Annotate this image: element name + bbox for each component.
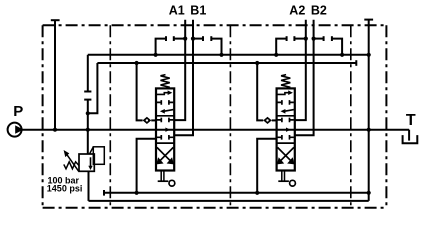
lever knob circle: [290, 180, 296, 186]
S2 bypass arrow on P line: [165, 128, 170, 132]
node: jog junction: [86, 111, 90, 115]
valve V2 body: [277, 88, 295, 170]
section divider line 3: [350, 25, 352, 207]
wire: B2 work line: [295, 20, 314, 135]
lever stem: [282, 171, 285, 182]
spring (top): [281, 75, 290, 89]
check valve diamond: [263, 117, 272, 124]
wire: bottom tank line 1 (plugged left end): [104, 192, 369, 194]
section split lines: [277, 116, 295, 143]
wire: tank gallery (upper): [88, 54, 369, 56]
plug cap: [51, 19, 60, 21]
plugged cavity: B-side: [193, 38, 203, 40]
S1 blocked bypass stubs: [157, 100, 173, 105]
S3 crossed arrows: [278, 147, 294, 161]
plug cap top: [364, 19, 373, 21]
relief valve adjustment arrow: [66, 154, 78, 171]
node dots on plug row: [304, 37, 308, 41]
wire: T return from valve: [257, 139, 276, 193]
check valve feed drop: [137, 63, 143, 120]
wire: T line corner into tank: [408, 130, 410, 141]
plugged cavity: tank-side right: [210, 36, 212, 41]
node: T line junction: [367, 128, 371, 132]
node: bottom line junction: [135, 191, 139, 195]
node dots on plug row: [183, 37, 187, 41]
wire: pressure gallery: [97, 62, 356, 64]
node: P line junction at x=55: [53, 128, 57, 132]
relief valve pilot envelope: [93, 147, 104, 165]
wire: bottom tank line 2 (from relief output): [89, 200, 369, 202]
node: junction at (87.8,129.7): [86, 128, 90, 132]
wire: check to valve: [272, 119, 277, 121]
check valve feed drop: [257, 63, 263, 120]
check valve diamond: [143, 117, 152, 124]
lever bar: [158, 180, 169, 182]
node: gallery feed junction: [135, 61, 139, 65]
plug bar: [103, 190, 105, 196]
lever stem: [161, 171, 164, 182]
svg-text:A1: A1: [169, 4, 185, 18]
S2 blocked stubs row 2: [278, 135, 294, 140]
S3 crossed arrows: [157, 147, 173, 161]
plugged relief cavity row: tank-side left: [276, 39, 286, 55]
S1 path feed->A arrow: [278, 93, 289, 95]
plug bar (facing): [84, 99, 91, 101]
wire: A1 work line: [174, 20, 185, 120]
relief valve spring: [64, 162, 79, 169]
pump source P symbol: [8, 123, 24, 137]
tank symbol T: [403, 135, 418, 143]
svg-text:A2: A2: [289, 4, 305, 18]
section divider line 1: [109, 25, 111, 207]
wire: check to valve: [151, 119, 156, 121]
S2 blocked stubs row 2: [157, 135, 173, 140]
wire: pressure gallery left corner down and jog: [88, 63, 98, 113]
wire: B1 work line: [174, 20, 193, 135]
wire: T collector vertical: [368, 20, 370, 201]
S2 blocked stubs row 1: [157, 118, 173, 123]
wire: T return from valve: [137, 139, 156, 193]
svg-text:B2: B2: [311, 4, 327, 18]
wire: A2 work line: [295, 20, 306, 120]
plugged cavity: A-side: [173, 36, 175, 41]
plugged cavity: tank-side right: [331, 36, 333, 41]
wire: plugged vertical stub at x=55: [54, 20, 56, 130]
plugged relief cavity row: tank-side left: [156, 39, 166, 55]
S2 bypass arrow on P line: [286, 128, 291, 132]
svg-text:B1: B1: [190, 4, 206, 18]
S1 path B->T arrow: [164, 110, 173, 112]
relief valve V1 body: [79, 154, 94, 171]
section split lines: [156, 116, 174, 143]
node: gallery feed junction: [255, 61, 259, 65]
valve V1 body: [156, 88, 174, 170]
wire: x=87.8 from plug down through P line to relief inlet: [87, 100, 89, 154]
wire: vertical x=87.8 tank-gallery corner down to plug: [87, 55, 89, 92]
S2 blocked stubs row 1: [278, 118, 294, 123]
wire: main P-T through line: [22, 129, 410, 131]
svg-text:P: P: [13, 103, 23, 120]
wire: relief output down to bottom tank line: [88, 171, 90, 201]
plugged cavity: A-side: [293, 36, 295, 41]
lever knob circle: [169, 180, 175, 186]
svg-text:T: T: [406, 112, 416, 129]
section divider line 2: [229, 25, 231, 207]
plugged cavity: B-side: [314, 38, 324, 40]
node: bottom line junction: [367, 191, 371, 195]
lever bar: [278, 180, 289, 182]
svg-text:1450 psi: 1450 psi: [47, 183, 83, 193]
plug bar: [84, 91, 91, 93]
enclosure border (dash-dot): [43, 25, 387, 207]
node: bottom line junction: [255, 191, 259, 195]
spring (top): [161, 75, 170, 89]
S1 blocked bypass stubs: [278, 100, 294, 105]
S1 path B->T arrow: [285, 110, 294, 112]
S1 path feed->A arrow: [157, 93, 168, 95]
relief valve internal arrow (down): [90, 157, 92, 166]
plug at right end of pressure gallery: [355, 60, 357, 66]
node: gallery junction: [367, 53, 371, 57]
